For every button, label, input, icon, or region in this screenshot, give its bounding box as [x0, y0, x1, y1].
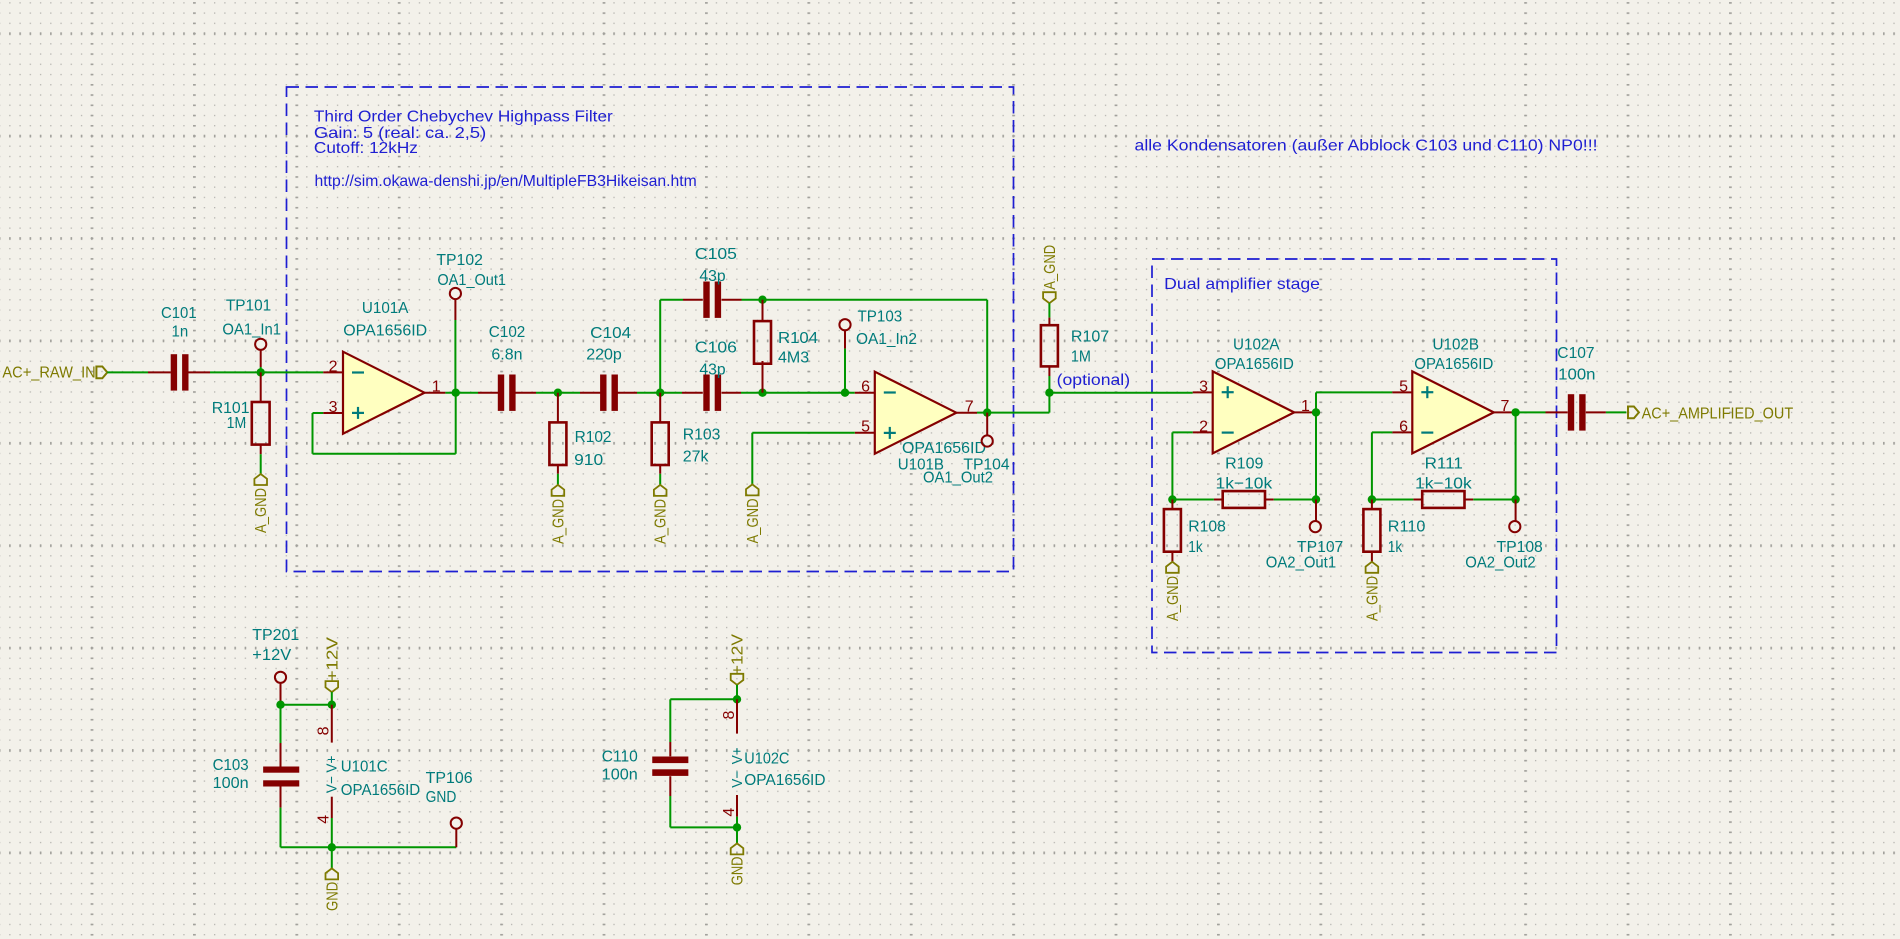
svg-text:220p: 220p: [586, 346, 622, 363]
ground label GND below U102C: [736, 827, 738, 843]
svg-text:OA1_In2: OA1_In2: [856, 331, 917, 348]
svg-text:(optional): (optional): [1057, 372, 1131, 389]
op-amp U102B: [1412, 371, 1494, 453]
node C104/C105 junction: [656, 389, 664, 397]
feedback wire U101A out down: [455, 393, 457, 454]
svg-text:3: 3: [1199, 378, 1208, 395]
wire C106 to U101B pin6: [741, 392, 855, 394]
capacitor C103: [280, 743, 282, 767]
pin 2 stub U102A: [1193, 431, 1213, 433]
svg-text:GND: GND: [426, 789, 457, 806]
svg-text:A_GND: A_GND: [1165, 576, 1182, 621]
wire U102B pin6 column down: [1371, 432, 1373, 499]
pin 8 U101C: [331, 705, 333, 743]
svg-text:C105: C105: [695, 246, 737, 263]
wire +12V to pin8 node U102C: [736, 685, 738, 700]
svg-text:OA2_Out1: OA2_Out1: [1266, 554, 1336, 571]
svg-text:R102: R102: [575, 429, 612, 446]
svg-text:C107: C107: [1557, 345, 1594, 362]
test point TP106: [451, 818, 462, 829]
test point TP102: [450, 288, 461, 299]
pin 3 stub U102A: [1193, 391, 1213, 393]
svg-text:V−: V−: [324, 776, 341, 793]
svg-text:U101C: U101C: [341, 759, 388, 776]
node R111 left junction: [1368, 495, 1376, 503]
op-amp U102A: [1213, 371, 1295, 453]
resistor R101: [260, 372, 262, 402]
resistor R111: [1372, 499, 1414, 501]
test point TP104: [982, 435, 993, 446]
svg-text:U102A: U102A: [1233, 337, 1280, 354]
capacitor C101: [148, 371, 171, 373]
node C105/R104 junction: [758, 296, 766, 304]
svg-text:Cutoff: 12kHz: Cutoff: 12kHz: [314, 140, 418, 157]
wire ground row U102C: [670, 826, 737, 828]
node TP101 junction: [257, 368, 265, 376]
svg-text:7: 7: [965, 399, 974, 416]
node R102 junction: [554, 389, 562, 397]
wire R107 to junction: [1048, 376, 1050, 393]
op-amp U101A: [343, 352, 425, 434]
capacitor C102: [478, 392, 498, 394]
svg-text:C103: C103: [213, 757, 249, 774]
svg-text:AC+_RAW_IN: AC+_RAW_IN: [2, 364, 95, 381]
wire pin4 to ground row: [331, 818, 333, 847]
power label +12V U101C: [326, 681, 339, 692]
resistor R110: [1371, 500, 1373, 510]
capacitor C106: [682, 392, 703, 394]
svg-text:OA1_In1: OA1_In1: [222, 322, 281, 339]
hierarchical label AC+_AMPLIFIED_OUT: [1628, 407, 1639, 419]
svg-text:A_GND: A_GND: [253, 488, 270, 533]
dashed box: Third Order Chebychev Highpass Filter group: [287, 87, 1014, 572]
svg-text:+12V: +12V: [730, 634, 747, 675]
svg-text:R109: R109: [1225, 455, 1263, 472]
svg-text:TP201: TP201: [252, 627, 299, 644]
svg-text:5: 5: [1399, 378, 1408, 395]
wire AC+_RAW_IN to C101: [107, 371, 148, 373]
svg-text:1k: 1k: [1388, 539, 1403, 556]
svg-text:1k−10k: 1k−10k: [1415, 475, 1473, 492]
svg-text:OPA1656ID: OPA1656ID: [343, 322, 427, 339]
capacitor C110: [669, 742, 671, 756]
wire R101 to ground label: [260, 454, 262, 474]
pin 6 stub U102B: [1392, 431, 1412, 433]
wire A_GND to R107: [1048, 303, 1050, 317]
svg-text:R103: R103: [683, 426, 721, 443]
wire C107 to output label: [1606, 411, 1626, 413]
test point TP201: [275, 672, 286, 683]
svg-text:1M: 1M: [1071, 349, 1091, 366]
wire junction up to C105 row: [659, 300, 661, 393]
svg-text:R108: R108: [1188, 518, 1226, 535]
svg-text:A_GND: A_GND: [1364, 576, 1381, 621]
node R111 right junction: [1511, 495, 1519, 503]
feedback wire U101A bottom: [313, 453, 456, 455]
pin 6 stub U101B: [855, 392, 875, 394]
wire R107 node to U102A pin3: [1049, 392, 1192, 394]
svg-text:R110: R110: [1388, 518, 1426, 535]
svg-text:R111: R111: [1425, 455, 1463, 472]
wire U101B pin5 left: [752, 432, 855, 434]
svg-text:TP102: TP102: [436, 252, 483, 269]
wire C105 to U101B output column: [742, 299, 988, 301]
svg-text:43p: 43p: [699, 362, 725, 379]
pin 2 stub U101A: [323, 371, 343, 373]
svg-text:100n: 100n: [213, 775, 249, 792]
wire U101B pin5 column down: [751, 433, 753, 485]
svg-text:4: 4: [721, 808, 738, 817]
op-amp U101B: [875, 372, 957, 454]
svg-text:1n: 1n: [172, 324, 189, 341]
svg-text:A_GND: A_GND: [1042, 245, 1059, 290]
wire C105 column down to U101B output: [986, 300, 988, 413]
feedback wire U101A left up: [312, 413, 314, 454]
node R107 junction: [1045, 389, 1053, 397]
svg-text:2: 2: [329, 358, 338, 375]
svg-text:1: 1: [432, 379, 441, 396]
svg-text:http://sim.okawa-denshi.jp/en/: http://sim.okawa-denshi.jp/en/MultipleFB…: [315, 173, 697, 190]
node TP201 junction: [276, 701, 284, 709]
svg-text:U102C: U102C: [744, 750, 789, 767]
wire U101A output to C102: [445, 392, 478, 394]
svg-text:+12V: +12V: [252, 647, 291, 664]
capacitor C104: [580, 392, 601, 394]
resistor R104: [762, 300, 764, 321]
svg-text:V−: V−: [729, 770, 746, 787]
resistor R103: [659, 393, 661, 423]
ground label A_GND below R110: [1366, 562, 1379, 573]
svg-text:6: 6: [861, 379, 870, 396]
svg-text:1M: 1M: [227, 415, 247, 432]
wire ground row U101C: [281, 846, 457, 848]
pin 5 stub U102B: [1392, 391, 1412, 393]
pin 7 stub U102B: [1494, 411, 1514, 413]
wire C102 to C104: [536, 392, 580, 394]
node R104 bottom junction: [758, 389, 766, 397]
wire R102 to ground label: [557, 474, 559, 485]
svg-text:+12V: +12V: [324, 637, 341, 681]
svg-text:3: 3: [329, 399, 338, 416]
svg-text:U101A: U101A: [362, 300, 409, 317]
svg-text:6.8n: 6.8n: [491, 346, 522, 363]
svg-text:1: 1: [1301, 398, 1310, 415]
ground label A_GND below R103: [654, 485, 667, 496]
svg-text:C101: C101: [161, 305, 197, 322]
svg-text:TP103: TP103: [858, 309, 903, 326]
wire C103 down to ground row: [280, 808, 282, 848]
resistor R109: [1172, 499, 1214, 501]
svg-text:V+: V+: [729, 747, 746, 764]
svg-text:U102B: U102B: [1433, 337, 1480, 354]
node TP103 junction: [841, 389, 849, 397]
pin 4 U101C: [331, 797, 333, 818]
wire U101B output right: [977, 412, 1049, 414]
node R109 left junction: [1168, 495, 1176, 503]
wire pin4 to ground junction U102C: [736, 817, 738, 828]
wire down to C110: [669, 699, 671, 742]
svg-text:OA2_Out2: OA2_Out2: [1465, 554, 1535, 571]
wire pin8 node left to C110: [670, 698, 737, 700]
pin 3 stub U101A: [323, 412, 343, 414]
svg-text:43p: 43p: [699, 268, 725, 285]
svg-text:A_GND: A_GND: [745, 499, 762, 544]
pin 1 stub U102A: [1294, 411, 1314, 413]
pin 1 stub U101A: [424, 392, 445, 394]
test point TP108: [1509, 521, 1520, 532]
svg-text:V+: V+: [324, 755, 341, 772]
pin 7 stub U101B: [956, 412, 977, 414]
svg-text:R107: R107: [1071, 329, 1109, 346]
node U101B output junction: [983, 408, 991, 416]
svg-text:Dual amplifier stage: Dual amplifier stage: [1164, 276, 1320, 293]
svg-text:7: 7: [1501, 398, 1510, 415]
wire U102A out down to R109: [1315, 412, 1317, 499]
svg-text:OPA1656ID: OPA1656ID: [902, 440, 986, 457]
svg-text:R104: R104: [778, 330, 818, 347]
wire U102B pin6 left: [1372, 431, 1392, 433]
wire C101 to U101A pin2: [210, 371, 323, 373]
wire U102B out down to R111: [1515, 412, 1517, 499]
ground label A_GND below U101B pin5: [746, 484, 759, 495]
node R109 right junction: [1312, 495, 1320, 503]
svg-text:4: 4: [316, 815, 333, 824]
svg-text:100n: 100n: [602, 767, 638, 784]
svg-text:27k: 27k: [683, 449, 710, 466]
svg-text:1k: 1k: [1188, 539, 1203, 556]
wire TP201 to pin8 node: [281, 704, 332, 706]
svg-text:2: 2: [1199, 418, 1208, 435]
node U102A output junction: [1312, 408, 1320, 416]
svg-text:AC+_AMPLIFIED_OUT: AC+_AMPLIFIED_OUT: [1642, 406, 1794, 423]
ground label A_GND above R107: [1043, 292, 1056, 303]
node ground junction U101C: [328, 843, 336, 851]
ground label A_GND below R101: [254, 474, 267, 485]
capacitor C107: [1546, 411, 1568, 413]
svg-text:C106: C106: [695, 340, 737, 357]
svg-text:8: 8: [316, 726, 333, 735]
wire C104 to C106: [637, 392, 682, 394]
svg-text:GND: GND: [730, 857, 747, 886]
test point TP101: [255, 339, 266, 350]
svg-text:8: 8: [721, 711, 738, 720]
svg-text:910: 910: [574, 452, 603, 469]
node pin8 junction U101C: [328, 701, 336, 709]
node ground junction U102C: [733, 823, 741, 831]
wire +12V to pin8 node: [331, 692, 333, 705]
svg-text:alle Kondensatoren (außer Abbl: alle Kondensatoren (außer Abblock C103 u…: [1135, 138, 1598, 155]
wire U102A pin2 left: [1172, 431, 1192, 433]
test point TP107: [1310, 521, 1321, 532]
wire U102B out to C107: [1513, 411, 1545, 413]
svg-text:100n: 100n: [1558, 367, 1595, 384]
dashed box: Dual amplifier stage group: [1152, 259, 1557, 653]
svg-text:TP106: TP106: [426, 770, 473, 787]
svg-text:Third Order Chebychev Highpass: Third Order Chebychev Highpass Filter: [314, 109, 614, 126]
ground label A_GND below R108: [1166, 562, 1179, 573]
svg-text:4M3: 4M3: [778, 350, 809, 367]
wire U102A out up-over to U102B pin5: [1315, 392, 1317, 412]
node U101A output junction: [452, 389, 460, 397]
capacitor C105: [660, 299, 683, 301]
svg-text:OPA1656ID: OPA1656ID: [744, 772, 825, 789]
resistor R108: [1171, 500, 1173, 510]
svg-text:OPA1656ID: OPA1656ID: [1414, 356, 1493, 373]
svg-text:TP101: TP101: [226, 297, 271, 314]
svg-text:1k−10k: 1k−10k: [1216, 475, 1274, 492]
ground label A_GND below R102: [552, 485, 565, 496]
resistor R102: [557, 393, 559, 423]
svg-text:C110: C110: [602, 749, 638, 766]
power label +12V U102C: [731, 674, 744, 685]
pin 5 stub U101B: [855, 432, 875, 434]
node U102B output junction: [1511, 408, 1519, 416]
svg-text:OPA1656ID: OPA1656ID: [1215, 356, 1294, 373]
ground label GND below U101C: [331, 847, 333, 868]
svg-text:C102: C102: [489, 324, 526, 341]
svg-text:A_GND: A_GND: [653, 499, 670, 544]
svg-text:GND: GND: [324, 882, 341, 911]
pin 8 U102C: [736, 699, 738, 733]
svg-text:6: 6: [1399, 418, 1408, 435]
wire C110 down to ground row: [669, 796, 671, 827]
wire jog up to R107 node: [1048, 393, 1050, 413]
resistor R107: [1048, 318, 1050, 326]
test point TP103: [839, 319, 850, 330]
pin 4 U102C: [736, 795, 738, 817]
feedback wire U101A to pin3: [313, 412, 324, 414]
svg-text:OA1_Out2: OA1_Out2: [923, 470, 993, 487]
wire R103 to ground label: [659, 474, 661, 485]
svg-text:C104: C104: [590, 325, 631, 342]
wire down to C103: [280, 705, 282, 743]
svg-text:A_GND: A_GND: [550, 499, 567, 544]
node pin8 junction U102C: [733, 695, 741, 703]
svg-text:OA1_Out1: OA1_Out1: [437, 272, 506, 289]
wire U102A pin2 column down: [1171, 432, 1173, 499]
svg-text:OPA1656ID: OPA1656ID: [341, 782, 420, 799]
svg-text:5: 5: [861, 419, 870, 436]
